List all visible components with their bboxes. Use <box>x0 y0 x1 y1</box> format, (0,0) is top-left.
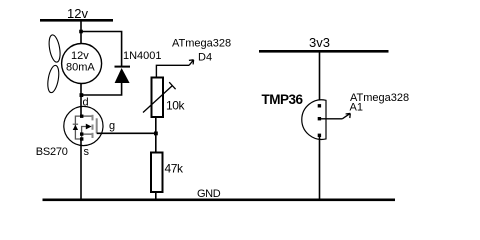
svg-text:TMP36: TMP36 <box>262 92 304 107</box>
wire mosfet source to gnd <box>80 139 82 200</box>
pin pad 2 <box>318 117 321 120</box>
svg-text:GND: GND <box>197 188 221 200</box>
diode D1 1N4001 <box>115 50 162 83</box>
pin pad 3 <box>318 134 321 137</box>
resistor R2 47k <box>151 153 184 193</box>
wire motor bottom to mosfet drain <box>80 83 82 116</box>
internal drain lead <box>82 115 92 117</box>
channel segment middle <box>92 125 94 130</box>
svg-text:47k: 47k <box>165 162 185 176</box>
power rail 3v3 <box>259 35 389 53</box>
fan blade lower <box>46 65 61 94</box>
pin pad 1 <box>318 104 321 107</box>
wire 12v rail to motor top <box>80 21 82 45</box>
wire junction to diode top <box>81 32 122 67</box>
wire 3v3 rail to tmp36 <box>319 52 321 106</box>
channel segment top <box>92 115 94 121</box>
svg-text:s: s <box>84 146 90 158</box>
motor M1 12v 80mA <box>62 44 102 84</box>
svg-text:10k: 10k <box>166 99 186 113</box>
node dot internal bottom <box>80 137 83 140</box>
svg-text:3v3: 3v3 <box>309 35 330 50</box>
body diode triangle <box>73 125 78 130</box>
wire divider node down to 47k <box>155 133 157 152</box>
body arrow head <box>86 124 92 130</box>
source internal lead <box>82 134 92 139</box>
sensor U1 TMP36 <box>302 100 326 140</box>
svg-text:A1: A1 <box>350 102 363 114</box>
svg-text:80mA: 80mA <box>66 62 95 74</box>
svg-text:ATmega328: ATmega328 <box>172 38 231 50</box>
svg-text:g: g <box>109 120 115 132</box>
transistor Q1 BS270 <box>64 106 103 145</box>
wire 10k bottom to divider node <box>155 117 157 133</box>
arrow to D4 <box>189 60 194 66</box>
node junction at 12v feed <box>79 30 83 34</box>
node dot internal top <box>80 115 83 118</box>
body arrow lead <box>82 127 87 135</box>
wire gate to divider node <box>97 132 156 134</box>
body diode branch <box>75 116 81 139</box>
node junction divider <box>154 132 158 136</box>
body diode bar <box>73 123 78 125</box>
node junction drain <box>80 93 84 97</box>
svg-text:BS270: BS270 <box>36 146 68 158</box>
wire tmp36 bottom to gnd <box>319 135 321 200</box>
node dot internal mid <box>80 132 83 135</box>
svg-text:12v: 12v <box>71 50 89 62</box>
fan blade upper <box>47 34 62 63</box>
arrow to A1 <box>342 113 350 118</box>
wire diode bottom to drain node <box>81 82 122 95</box>
svg-text:1N4001: 1N4001 <box>123 50 162 62</box>
channel segment bottom <box>92 133 94 138</box>
ground rail GND <box>43 188 396 201</box>
svg-text:12v: 12v <box>67 6 88 21</box>
gate plate <box>96 118 98 133</box>
wire 47k bottom to gnd <box>155 192 157 200</box>
wire tmp36 middle pin to A1 arrow <box>321 118 342 120</box>
svg-text:D4: D4 <box>198 52 212 64</box>
wire 10k top to D4 arrow <box>156 65 189 77</box>
power rail 12v <box>40 6 113 22</box>
trimmer R1 10k <box>143 78 186 118</box>
